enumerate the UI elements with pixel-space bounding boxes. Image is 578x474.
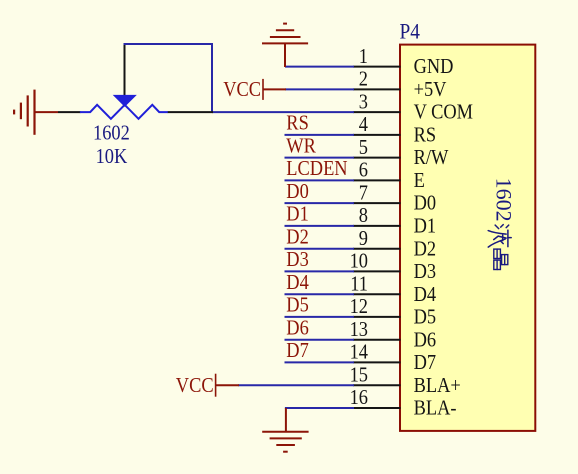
svg-text:13: 13 xyxy=(350,318,368,342)
svg-text:D6: D6 xyxy=(286,316,308,340)
svg-text:RS: RS xyxy=(414,123,436,147)
wire: net D6 stub to pin 13 xyxy=(285,339,355,341)
svg-text:D7: D7 xyxy=(286,339,308,363)
svg-text:1602: 1602 xyxy=(492,178,517,222)
svg-text:WR: WR xyxy=(286,134,316,158)
svg-text:16: 16 xyxy=(350,386,368,410)
wire: net D3 stub to pin 10 xyxy=(285,270,355,272)
svg-text:6: 6 xyxy=(359,158,368,182)
svg-text:+5V: +5V xyxy=(414,78,447,102)
ground (top, pin 1) xyxy=(262,24,308,67)
pin 1 (GND) xyxy=(353,45,453,79)
svg-text:D0: D0 xyxy=(414,191,436,215)
svg-text:LCDEN: LCDEN xyxy=(286,157,347,181)
svg-text:2: 2 xyxy=(359,67,368,91)
pin 6 (E) xyxy=(353,158,425,192)
svg-text:9: 9 xyxy=(359,227,368,251)
svg-text:GND: GND xyxy=(414,55,454,79)
pin 3 (V COM) xyxy=(353,90,473,124)
wire: net D4 stub to pin 11 xyxy=(285,293,355,295)
svg-text:D4: D4 xyxy=(286,271,308,295)
svg-text:RS: RS xyxy=(286,111,308,135)
connector P4 body xyxy=(400,45,535,431)
svg-text:BLA-: BLA- xyxy=(414,396,457,420)
wire: top ground to pin 1 (GND net) xyxy=(285,66,354,68)
pin 7 (D0) xyxy=(353,181,436,215)
svg-text:D3: D3 xyxy=(414,260,436,284)
pin 12 (D5) xyxy=(350,295,436,329)
svg-text:D1: D1 xyxy=(286,202,308,226)
pin 8 (D1) xyxy=(353,204,436,238)
svg-text:1602: 1602 xyxy=(93,121,130,145)
svg-text:D5: D5 xyxy=(286,293,308,317)
svg-text:VCC: VCC xyxy=(176,374,214,398)
svg-text:12: 12 xyxy=(350,295,368,319)
wire: potentiometer to pin 3 (V COM net) xyxy=(212,111,354,113)
svg-text:D0: D0 xyxy=(286,180,308,204)
pin 16 (BLA-) xyxy=(350,386,457,420)
wire: net LCDEN stub to pin 6 xyxy=(285,179,355,181)
wire: net D5 stub to pin 12 xyxy=(285,316,355,318)
power port VCC (pin 2) xyxy=(223,78,286,102)
svg-text:8: 8 xyxy=(359,204,368,228)
svg-text:BLA+: BLA+ xyxy=(414,374,461,398)
wire: net RS stub to pin 4 xyxy=(285,134,355,136)
pin 14 (D7) xyxy=(350,340,436,374)
svg-text:D1: D1 xyxy=(414,214,436,238)
svg-text:3: 3 xyxy=(359,90,368,114)
pin 9 (D2) xyxy=(353,227,436,261)
svg-text:D7: D7 xyxy=(414,351,436,375)
part label 1602液晶 xyxy=(488,178,516,270)
wire: net D2 stub to pin 9 xyxy=(285,248,355,250)
svg-text:5: 5 xyxy=(359,136,368,160)
pin 13 (D6) xyxy=(350,318,436,352)
ground (left, power ground) xyxy=(14,90,58,135)
svg-text:7: 7 xyxy=(359,181,368,205)
wire: net D7 stub to pin 14 xyxy=(285,361,355,363)
svg-text:4: 4 xyxy=(359,113,368,137)
svg-text:15: 15 xyxy=(350,363,368,387)
svg-text:D2: D2 xyxy=(286,225,308,249)
svg-text:D2: D2 xyxy=(414,237,436,261)
pin 15 (BLA+) xyxy=(350,363,461,397)
svg-text:V COM: V COM xyxy=(414,100,474,124)
wire: net D1 stub to pin 8 xyxy=(285,225,355,227)
ground (bottom, pin 16) xyxy=(262,408,308,452)
svg-text:11: 11 xyxy=(350,272,368,296)
svg-text:D3: D3 xyxy=(286,248,308,272)
pin 4 (RS) xyxy=(353,113,436,147)
svg-text:P4: P4 xyxy=(400,20,421,43)
svg-text:14: 14 xyxy=(350,340,368,364)
wire: potentiometer wiper loop xyxy=(124,44,213,112)
svg-text:VCC: VCC xyxy=(223,78,261,102)
svg-text:E: E xyxy=(414,169,425,193)
wire: net D0 stub to pin 7 xyxy=(285,202,355,204)
wire: net WR stub to pin 5 xyxy=(285,157,355,159)
wire: pin 16 to bottom ground (BLA- net) xyxy=(286,408,354,409)
svg-text:10: 10 xyxy=(350,249,368,273)
power port VCC (pin 15) xyxy=(176,374,239,398)
wire: VCC to pin 15 (BLA+ net) xyxy=(238,384,354,386)
wire: VCC to pin 2 (+5V net) xyxy=(285,88,354,90)
svg-text:10K: 10K xyxy=(96,145,128,169)
svg-text:R/W: R/W xyxy=(414,146,449,170)
svg-text:D5: D5 xyxy=(414,305,436,329)
pin 11 (D4) xyxy=(350,272,436,306)
potentiometer R? 1602 10K xyxy=(58,45,213,119)
pin 5 (R/W) xyxy=(353,136,448,170)
pin 2 (+5V) xyxy=(353,67,447,101)
svg-text:D6: D6 xyxy=(414,328,436,352)
svg-text:D4: D4 xyxy=(414,283,436,307)
pin 10 (D3) xyxy=(350,249,436,283)
svg-text:1: 1 xyxy=(359,45,368,69)
